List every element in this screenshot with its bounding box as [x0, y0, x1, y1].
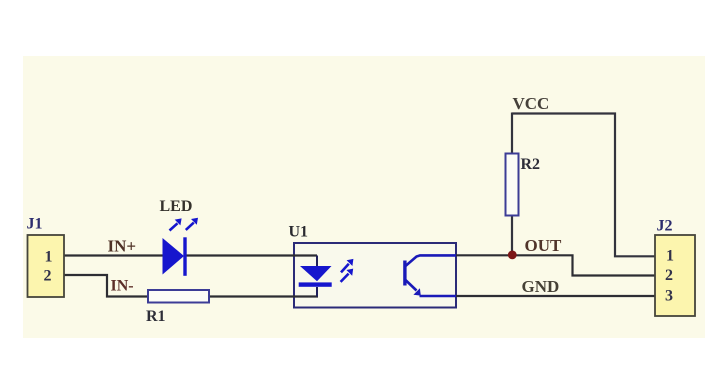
schematic sheet background [23, 56, 705, 338]
svg-text:1: 1 [45, 249, 53, 266]
svg-text:IN+: IN+ [108, 237, 137, 256]
U1 internal emission arrow 2 [341, 274, 349, 282]
svg-text:2: 2 [665, 267, 673, 284]
junction dot OUT node [508, 251, 517, 260]
wire R2 bottom to OUT node [511, 215, 513, 255]
svg-text:IN-: IN- [111, 278, 134, 295]
wire LED cathode to U1 pin1 [185, 254, 317, 256]
wire J1 pin1 to LED anode (IN+ net) [64, 254, 163, 256]
resistor R1 [148, 290, 209, 303]
wire VCC to R2 top [511, 113, 513, 155]
LED emission arrow 1 [170, 223, 178, 230]
svg-text:2: 2 [44, 268, 52, 285]
connector J2 [655, 235, 695, 316]
svg-text:J1: J1 [27, 216, 43, 233]
LED cathode bar [183, 237, 186, 275]
svg-text:OUT: OUT [525, 236, 563, 255]
U1 internal LED cathode lead [316, 287, 318, 297]
U1 internal emission arrow 1 [341, 264, 349, 273]
svg-text:3: 3 [665, 288, 673, 305]
svg-text:LED: LED [160, 198, 193, 215]
wire VCC rail to J2 pin1 [512, 114, 655, 257]
svg-text:R2: R2 [521, 156, 541, 173]
U1 phototransistor emitter lead [420, 295, 457, 298]
svg-text:GND: GND [522, 277, 560, 296]
U1 phototransistor base bar [403, 261, 406, 286]
U1 internal LED cathode bar [299, 282, 332, 286]
connector J1 [28, 235, 65, 297]
svg-text:J2: J2 [657, 218, 673, 235]
svg-text:VCC: VCC [513, 94, 550, 113]
wire J1 pin2 down-step (IN- net) [64, 275, 148, 297]
optocoupler U1 body [294, 243, 456, 308]
wire U1 emitter to J2 pin3 (GND net) [456, 295, 655, 297]
LED emission arrow 2 [186, 223, 194, 230]
svg-text:U1: U1 [289, 224, 309, 241]
wire R1 to U1 pin2 [209, 295, 318, 297]
U1 phototransistor collector [406, 255, 457, 266]
U1 phototransistor emitter with arrow [406, 280, 417, 291]
resistor R2 [506, 154, 519, 216]
wire U1 collector to OUT node and step down to J2 pin2 [456, 255, 655, 275]
U1 internal LED triangle [300, 266, 332, 281]
LED diode triangle [163, 238, 185, 275]
svg-text:1: 1 [666, 248, 674, 265]
U1 internal LED anode lead [316, 256, 318, 267]
svg-text:R1: R1 [146, 308, 166, 325]
